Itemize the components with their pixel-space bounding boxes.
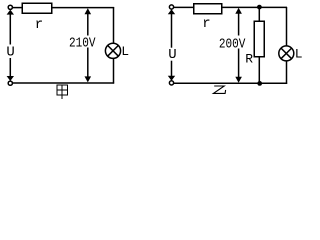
terminal top-left <box>8 5 12 9</box>
svg-text:r: r <box>202 16 210 32</box>
junction node top <box>257 5 262 10</box>
lamp L1 <box>105 43 120 58</box>
svg-text:U: U <box>168 47 176 63</box>
U arrow (double-headed, left) <box>7 10 14 81</box>
svg-text:210V: 210V <box>69 36 96 52</box>
svg-text:r: r <box>35 17 43 33</box>
wire right side down <box>113 7 115 84</box>
character yi (乙) <box>213 86 225 93</box>
210V arrow (double-headed) <box>85 8 92 82</box>
wire top-left to resistor r <box>12 7 22 9</box>
wire resistor to top-right corner <box>52 7 115 9</box>
U arrow (double-headed, right circuit) <box>168 9 175 80</box>
resistor R (vertical box) <box>254 21 264 57</box>
terminal bottom-left <box>8 81 12 85</box>
character jia (甲) <box>57 85 67 99</box>
bottom wire <box>12 82 114 84</box>
svg-text:L: L <box>121 44 129 59</box>
svg-text:U: U <box>6 45 14 61</box>
resistor r (right) <box>194 4 222 14</box>
svg-text:L: L <box>295 46 303 61</box>
wire resistor to top-right corner <box>222 6 288 8</box>
resistor r <box>22 3 52 13</box>
terminal top-left <box>169 5 173 9</box>
200V arrow (double-headed) <box>235 8 242 83</box>
bottom wire <box>174 82 288 84</box>
terminal bottom-left <box>169 81 173 85</box>
wire to resistor r <box>174 6 194 8</box>
svg-text:R: R <box>245 52 253 67</box>
right side wire down <box>286 7 288 84</box>
svg-text:200V: 200V <box>219 36 246 52</box>
R branch wire <box>258 7 260 83</box>
lamp L2 <box>279 46 294 61</box>
junction node bottom <box>257 81 262 86</box>
